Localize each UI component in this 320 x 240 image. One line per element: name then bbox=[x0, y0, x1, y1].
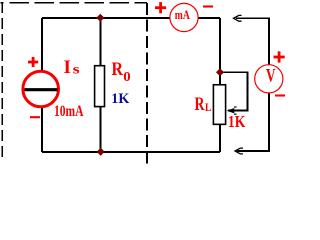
svg-text:1K: 1K bbox=[228, 112, 246, 131]
svg-text:10mA: 10mA bbox=[54, 103, 84, 120]
svg-text:V: V bbox=[266, 65, 276, 86]
svg-text:I: I bbox=[64, 57, 71, 78]
svg-text:R: R bbox=[195, 94, 205, 115]
svg-text:mA: mA bbox=[175, 7, 190, 22]
svg-text:L: L bbox=[205, 100, 211, 114]
svg-text:s: s bbox=[73, 63, 81, 78]
svg-text:0: 0 bbox=[123, 69, 131, 84]
svg-text:R: R bbox=[112, 59, 124, 80]
svg-text:1K: 1K bbox=[111, 91, 129, 107]
